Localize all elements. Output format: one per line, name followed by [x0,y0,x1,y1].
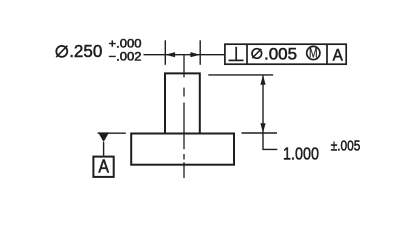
diameter symbol of Ø.250 [56,46,67,57]
extension line top of pin (for 1.000 dim) [208,74,273,76]
datum feature box [93,157,113,177]
extension line right (pin right edge) [199,40,201,65]
svg-text:A: A [98,156,109,177]
MMC modifier circle [307,46,320,59]
datum feature stem [103,142,105,156]
svg-text:±.005: ±.005 [331,139,361,155]
svg-text:A: A [333,46,343,64]
leader elbow to 1.000 text [263,133,277,149]
pin outline (boss) [165,73,200,133]
datum extension line [98,132,126,134]
arrowhead pointing down [260,123,265,133]
diameter symbol of Ø.005 [252,49,262,59]
arrowhead pointing right [190,52,200,57]
svg-text:.005: .005 [264,46,297,64]
leader line from Ø.250 to feature control frame [144,54,225,56]
svg-text:M: M [309,46,318,61]
feature control frame outer box [225,44,346,64]
datum feature triangle (filled) [98,132,109,142]
arrowhead pointing up [260,75,265,85]
centerline of pin (dash-dot) [183,55,185,178]
svg-text:−.002: −.002 [109,49,142,63]
svg-text:.250: .250 [69,41,102,61]
feature control frame cell divider 1 [246,44,248,64]
arrowhead pointing left [165,52,175,57]
perpendicularity symbol [229,47,244,61]
extension line top of base (for 1.000 dim) [242,132,278,134]
extension line left (pin left edge) [164,40,166,65]
feature control frame cell divider 2 [326,44,328,64]
vertical dimension line 1.000 [262,75,264,133]
svg-text:1.000: 1.000 [283,143,319,163]
base block outline [131,134,234,165]
